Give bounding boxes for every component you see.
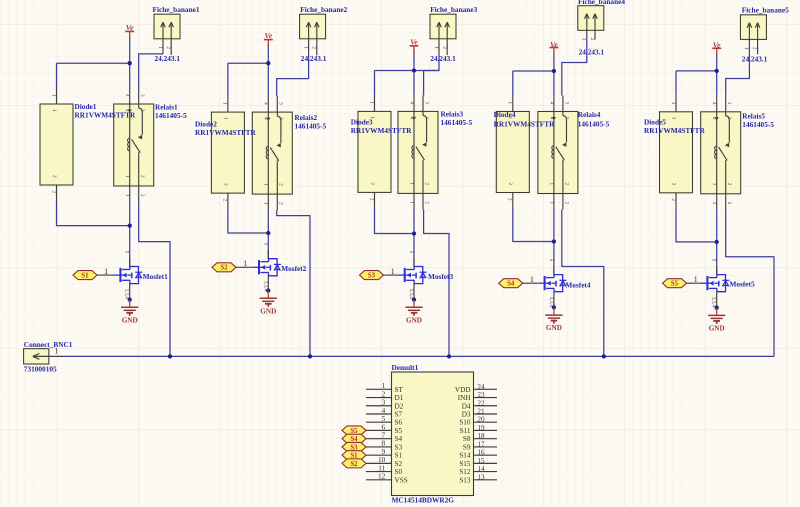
wire Ve3 vertical xyxy=(413,51,415,96)
pin 13 S13 xyxy=(474,479,498,481)
pin 3 D2 xyxy=(366,405,392,407)
svg-text:1: 1 xyxy=(548,202,554,205)
wire Ve5 to Diode5 top xyxy=(676,70,717,72)
svg-text:9: 9 xyxy=(382,448,386,456)
node Ve4 junction xyxy=(552,69,556,73)
svg-text:MC14514BDWR2G: MC14514BDWR2G xyxy=(392,495,455,504)
svg-text:1: 1 xyxy=(50,94,56,97)
pin 21 D3 xyxy=(474,413,498,415)
pin 17 S9 xyxy=(474,446,498,448)
wire relay3 left to mosfet drain xyxy=(413,209,415,266)
IC Demult1 MC14514BDWR2G xyxy=(392,372,474,496)
node bus junction xyxy=(308,354,312,358)
pin Mosfet3 drain xyxy=(413,258,415,266)
svg-text:S3: S3 xyxy=(395,443,403,451)
connector Connect_BNC1 xyxy=(24,349,64,364)
svg-text:Fiche_banane3: Fiche_banane3 xyxy=(430,5,477,14)
wire Diode2 bottom to node xyxy=(228,210,268,233)
pin Mosfet2 gate xyxy=(236,266,253,268)
svg-text:2: 2 xyxy=(670,198,676,201)
svg-text:5: 5 xyxy=(382,415,386,423)
svg-text:1: 1 xyxy=(530,275,534,284)
svg-text:GND: GND xyxy=(406,316,422,324)
svg-text:1,3,4: 1,3,4 xyxy=(408,289,414,300)
pin 5 S6 xyxy=(366,421,392,423)
svg-text:2: 2 xyxy=(726,202,732,205)
svg-text:2: 2 xyxy=(382,390,386,398)
svg-text:15: 15 xyxy=(477,457,485,465)
svg-text:2: 2 xyxy=(563,183,569,186)
wire relay1 left to mosfet drain xyxy=(129,202,131,267)
port S1 demult xyxy=(342,451,366,460)
pin 18 S8 xyxy=(474,438,498,440)
pin 11 S0 xyxy=(366,471,392,473)
svg-text:S9: S9 xyxy=(463,443,471,451)
diode Diode5 xyxy=(660,96,693,210)
svg-text:3: 3 xyxy=(563,102,569,105)
svg-text:1: 1 xyxy=(368,101,374,104)
svg-text:16: 16 xyxy=(477,449,485,457)
svg-text:S14: S14 xyxy=(459,452,471,460)
svg-text:S0: S0 xyxy=(395,468,403,476)
svg-text:3: 3 xyxy=(726,117,732,120)
svg-text:ST: ST xyxy=(395,386,404,394)
relay Relais1 xyxy=(114,88,154,202)
svg-text:S1: S1 xyxy=(81,273,89,280)
wire Fiche_banane2 to relay2 right xyxy=(277,55,309,96)
svg-text:S10: S10 xyxy=(459,419,471,427)
ground GND xyxy=(708,306,725,333)
port S3 demult xyxy=(342,442,366,451)
svg-text:3: 3 xyxy=(423,116,429,119)
transistor Mosfet3 xyxy=(398,251,426,300)
svg-text:Ve: Ve xyxy=(126,23,134,32)
node Ve3 junction xyxy=(412,68,416,72)
svg-text:10: 10 xyxy=(378,456,386,464)
svg-text:S4: S4 xyxy=(507,281,515,288)
svg-text:1461405-5: 1461405-5 xyxy=(742,120,774,129)
svg-text:24.243.1: 24.243.1 xyxy=(579,47,605,56)
svg-text:Fiche_banane5: Fiche_banane5 xyxy=(742,5,789,14)
svg-text:RR1VWM4STFTR: RR1VWM4STFTR xyxy=(494,120,556,129)
svg-text:12: 12 xyxy=(378,473,386,481)
svg-text:1: 1 xyxy=(408,182,414,185)
svg-text:Ve: Ve xyxy=(264,31,272,40)
diode Diode3 xyxy=(358,95,391,208)
svg-text:S5: S5 xyxy=(671,281,679,288)
transistor Mosfet2 xyxy=(253,243,281,292)
svg-text:GND: GND xyxy=(122,316,138,324)
svg-text:Mosfet4: Mosfet4 xyxy=(565,281,590,290)
svg-text:24: 24 xyxy=(477,383,485,391)
pin Mosfet4 drain xyxy=(553,266,555,274)
port S4 demult xyxy=(342,434,366,443)
svg-text:S2: S2 xyxy=(350,461,358,468)
wire Ve2 to Diode2 top xyxy=(228,62,268,64)
power port Ve xyxy=(550,40,559,54)
wire relay4 right to bus xyxy=(562,210,604,357)
svg-text:22: 22 xyxy=(477,399,485,407)
svg-text:3: 3 xyxy=(726,102,732,105)
pin Mosfet5 source xyxy=(716,292,718,308)
svg-text:D3: D3 xyxy=(462,410,471,418)
svg-text:1: 1 xyxy=(391,267,395,276)
svg-text:Diode4: Diode4 xyxy=(494,110,516,119)
svg-text:3: 3 xyxy=(563,117,569,120)
wire relay5 right to bus xyxy=(726,210,774,357)
svg-text:2: 2 xyxy=(507,198,513,201)
wire Fiche_banane1 to relay1 right xyxy=(139,54,163,88)
pin 14 S12 xyxy=(474,471,498,473)
svg-text:5: 5 xyxy=(262,243,268,246)
pin 15 S15 xyxy=(474,462,498,464)
svg-text:4: 4 xyxy=(408,101,414,104)
svg-text:1: 1 xyxy=(433,46,439,49)
diode Diode2 xyxy=(211,96,244,210)
pin 1 ST xyxy=(366,388,392,390)
wire Diode3 bottom to node xyxy=(375,209,415,234)
diode Diode4 xyxy=(496,96,529,210)
wire Ve2 vertical xyxy=(267,45,269,97)
svg-text:Fiche_banane1: Fiche_banane1 xyxy=(153,5,200,14)
svg-text:3: 3 xyxy=(139,94,145,97)
svg-text:S4: S4 xyxy=(395,435,403,443)
svg-text:2: 2 xyxy=(726,183,732,186)
svg-text:S12: S12 xyxy=(459,468,471,476)
svg-text:4: 4 xyxy=(124,94,130,97)
svg-text:1: 1 xyxy=(548,183,554,186)
svg-text:1: 1 xyxy=(222,117,228,120)
svg-text:1461405-5: 1461405-5 xyxy=(578,120,610,129)
wire relay2 left to mosfet drain xyxy=(267,210,269,259)
pin Mosfet2 source xyxy=(267,276,269,291)
svg-text:2: 2 xyxy=(139,175,145,178)
wire Ve3 to Diode3 top xyxy=(375,70,440,72)
node bus junction xyxy=(447,354,451,358)
svg-text:2: 2 xyxy=(368,198,374,201)
svg-text:2: 2 xyxy=(50,191,56,194)
svg-text:1: 1 xyxy=(157,46,163,49)
svg-text:1: 1 xyxy=(124,194,130,197)
svg-text:1461405-5: 1461405-5 xyxy=(295,121,327,130)
port S2 demult xyxy=(342,459,366,468)
relay Relais2 xyxy=(252,96,292,210)
svg-text:2: 2 xyxy=(751,47,757,50)
power port Ve xyxy=(410,37,419,52)
relay Relais4 xyxy=(538,96,578,210)
svg-text:19: 19 xyxy=(477,424,485,432)
svg-text:1: 1 xyxy=(711,202,717,205)
port S1 xyxy=(73,271,97,280)
svg-text:2: 2 xyxy=(51,175,57,178)
pin Mosfet1 drain xyxy=(129,258,131,266)
svg-text:3: 3 xyxy=(423,101,429,104)
pin Mosfet2 drain xyxy=(267,250,269,258)
svg-text:5: 5 xyxy=(548,259,554,262)
node diode5 bottom junction xyxy=(715,240,719,244)
node diode3 bottom junction xyxy=(412,231,416,235)
wire Fiche_banane3 to relay3 right xyxy=(424,55,439,95)
svg-text:17: 17 xyxy=(477,440,485,448)
svg-text:24.243.1: 24.243.1 xyxy=(430,54,456,63)
ground GND xyxy=(405,297,422,324)
svg-text:3: 3 xyxy=(382,399,386,407)
svg-text:1: 1 xyxy=(104,267,108,276)
svg-text:S13: S13 xyxy=(459,476,471,484)
pin 22 D4 xyxy=(474,405,498,407)
wire Ve1 vertical xyxy=(129,36,131,88)
wire Fiche_banane5 to relay5 right xyxy=(726,47,750,96)
svg-text:VDD: VDD xyxy=(455,386,471,394)
svg-text:4: 4 xyxy=(382,407,386,415)
svg-text:21: 21 xyxy=(477,407,485,415)
port S3 xyxy=(360,271,384,280)
svg-text:RR1VWM4STFTR: RR1VWM4STFTR xyxy=(75,110,137,119)
wire relay4 left to mosfet drain xyxy=(553,210,555,275)
svg-text:D2: D2 xyxy=(395,402,404,410)
port S5 demult xyxy=(342,426,366,435)
svg-text:2: 2 xyxy=(369,182,375,185)
svg-text:2: 2 xyxy=(423,201,429,204)
svg-text:24.243.1: 24.243.1 xyxy=(301,54,327,63)
svg-text:20: 20 xyxy=(477,416,485,424)
svg-text:1: 1 xyxy=(581,38,587,41)
node diode1 bottom junction xyxy=(128,223,132,227)
svg-text:GND: GND xyxy=(546,324,562,332)
power port Ve xyxy=(264,31,273,46)
pin 23 INH xyxy=(474,397,498,399)
svg-text:RR1VWM4STFTR: RR1VWM4STFTR xyxy=(195,128,257,137)
node diode4 bottom junction xyxy=(552,239,556,243)
pin 7 S4 xyxy=(366,438,392,440)
svg-text:2: 2 xyxy=(139,194,145,197)
svg-text:S7: S7 xyxy=(395,410,403,418)
svg-text:1: 1 xyxy=(243,259,247,268)
pin 4 S7 xyxy=(366,413,392,415)
pin 16 S14 xyxy=(474,454,498,456)
svg-text:13: 13 xyxy=(477,473,485,481)
svg-text:23: 23 xyxy=(477,391,485,399)
pin Mosfet1 gate xyxy=(97,274,114,276)
svg-text:4: 4 xyxy=(711,117,717,120)
pin 20 S10 xyxy=(474,421,498,423)
svg-text:2: 2 xyxy=(311,46,317,49)
svg-text:2: 2 xyxy=(423,182,429,185)
svg-text:Fiche_banane4: Fiche_banane4 xyxy=(578,0,625,6)
svg-text:6: 6 xyxy=(382,423,386,431)
svg-text:RR1VWM4STFTR: RR1VWM4STFTR xyxy=(351,126,413,135)
svg-text:3: 3 xyxy=(139,109,145,112)
svg-text:Demult1: Demult1 xyxy=(392,363,419,372)
svg-text:4: 4 xyxy=(548,102,554,105)
wire Diode4 top drop xyxy=(512,71,514,96)
svg-text:2: 2 xyxy=(589,38,595,41)
svg-text:2: 2 xyxy=(670,183,676,186)
power port Ve xyxy=(125,23,134,38)
pin Mosfet1 source xyxy=(129,284,131,300)
wire Diode2 top drop xyxy=(227,63,229,96)
svg-text:1: 1 xyxy=(670,102,676,105)
svg-text:1: 1 xyxy=(507,102,513,105)
power port Ve xyxy=(712,41,721,55)
svg-text:S3: S3 xyxy=(368,273,376,280)
node Ve1 junction xyxy=(128,61,132,65)
pin 8 S3 xyxy=(366,446,392,448)
wire Diode5 top drop xyxy=(675,71,677,96)
svg-text:4: 4 xyxy=(711,102,717,105)
svg-text:24.243.1: 24.243.1 xyxy=(155,54,181,63)
svg-text:2: 2 xyxy=(563,202,569,205)
wire Diode3 top drop xyxy=(374,71,376,96)
svg-text:Relais4: Relais4 xyxy=(578,110,601,119)
svg-text:Mosfet3: Mosfet3 xyxy=(428,272,453,281)
svg-text:4: 4 xyxy=(408,116,414,119)
wire bottom bus xyxy=(63,355,774,357)
wire relay2 right to bus xyxy=(277,210,310,356)
svg-text:1: 1 xyxy=(670,117,676,120)
port S5 xyxy=(663,279,687,288)
svg-text:Mosfet1: Mosfet1 xyxy=(143,272,168,281)
connector Fiche_banane1 xyxy=(154,14,180,55)
svg-text:S2: S2 xyxy=(220,265,228,272)
connector Fiche_banane2 xyxy=(300,14,326,55)
pin 24 VDD xyxy=(474,388,498,390)
pin Mosfet5 gate xyxy=(687,282,702,284)
svg-text:Fiche_banane2: Fiche_banane2 xyxy=(300,5,347,14)
svg-text:731000105: 731000105 xyxy=(24,365,57,374)
svg-text:2: 2 xyxy=(222,183,228,186)
relay Relais3 xyxy=(398,95,438,209)
relay Relais5 xyxy=(701,96,741,210)
diode Diode1 xyxy=(40,88,73,202)
pin 12 VSS xyxy=(366,479,392,481)
wire Ve5 vertical xyxy=(716,53,718,96)
pin Mosfet4 gate xyxy=(523,282,539,284)
svg-text:VSS: VSS xyxy=(395,476,408,484)
svg-text:14: 14 xyxy=(477,465,485,473)
pin Mosfet3 gate xyxy=(384,274,399,276)
svg-text:1461405-5: 1461405-5 xyxy=(441,118,473,127)
ground GND xyxy=(121,297,138,324)
svg-text:1: 1 xyxy=(124,175,130,178)
svg-text:1,3,4: 1,3,4 xyxy=(124,289,130,300)
transistor Mosfet1 xyxy=(114,251,142,300)
wire Diode1 bottom to node xyxy=(57,202,130,226)
port S2 xyxy=(212,263,236,272)
svg-text:8: 8 xyxy=(382,440,386,448)
wire Ve4 to Diode4 top xyxy=(513,70,554,72)
svg-text:24.243.1: 24.243.1 xyxy=(742,55,768,64)
pin 2 D1 xyxy=(366,397,392,399)
svg-text:S15: S15 xyxy=(459,460,471,468)
node diode2 bottom junction xyxy=(266,231,270,235)
node bus junction xyxy=(168,354,172,358)
svg-text:Mosfet5: Mosfet5 xyxy=(730,280,755,289)
svg-text:D1: D1 xyxy=(395,394,404,402)
wire Fiche_banane4 to relay4 right xyxy=(562,40,587,96)
svg-text:18: 18 xyxy=(477,432,485,440)
svg-text:INH: INH xyxy=(458,394,471,402)
node Ve2 junction xyxy=(266,61,270,65)
pin Mosfet3 source xyxy=(413,284,415,300)
wire Diode4 bottom to node xyxy=(513,209,554,242)
svg-text:GND: GND xyxy=(709,325,725,333)
pin 19 S11 xyxy=(474,429,498,431)
svg-text:11: 11 xyxy=(378,464,385,472)
svg-text:1: 1 xyxy=(302,46,308,49)
svg-text:D4: D4 xyxy=(462,402,471,410)
node bus junction xyxy=(602,354,606,358)
wire Ve1 to Diode1 top xyxy=(57,62,130,64)
svg-text:1,3,4: 1,3,4 xyxy=(711,297,717,308)
svg-text:S8: S8 xyxy=(463,435,471,443)
svg-text:1461405-5: 1461405-5 xyxy=(155,111,187,120)
pin Mosfet5 drain xyxy=(716,266,718,274)
port S4 xyxy=(499,279,523,288)
pin 6 S5 xyxy=(366,429,392,431)
svg-text:Connect_BNC1: Connect_BNC1 xyxy=(24,340,73,349)
pin Mosfet4 source xyxy=(553,292,555,308)
transistor Mosfet4 xyxy=(538,259,566,308)
svg-text:1: 1 xyxy=(694,275,698,284)
wire Diode1 top drop xyxy=(56,63,58,88)
wire Diode5 bottom to node xyxy=(676,209,717,242)
svg-text:S1: S1 xyxy=(395,452,403,460)
connector Fiche_banane5 xyxy=(740,15,766,54)
svg-text:1: 1 xyxy=(408,201,414,204)
svg-text:S11: S11 xyxy=(460,427,471,435)
ground GND xyxy=(545,305,562,332)
transistor Mosfet5 xyxy=(701,259,729,308)
svg-text:S2: S2 xyxy=(395,460,403,468)
svg-text:GND: GND xyxy=(260,307,276,315)
wire relay3 right to bus xyxy=(424,209,449,356)
svg-text:1: 1 xyxy=(711,183,717,186)
connector Fiche_banane4 xyxy=(578,6,604,41)
wire Ve4 vertical xyxy=(553,52,555,95)
pin 9 S1 xyxy=(366,454,392,456)
svg-text:1: 1 xyxy=(382,382,386,390)
wire relay5 left to mosfet drain xyxy=(716,210,718,275)
svg-text:1: 1 xyxy=(51,109,57,112)
svg-text:7: 7 xyxy=(382,431,386,439)
wire relay1 right to bus xyxy=(139,202,170,356)
svg-text:RR1VWM4STFTR: RR1VWM4STFTR xyxy=(644,126,706,135)
node Ve5 junction xyxy=(715,69,719,73)
connector Fiche_banane3 xyxy=(430,14,456,55)
svg-text:Mosfet2: Mosfet2 xyxy=(281,264,306,273)
svg-text:Ve: Ve xyxy=(410,37,418,46)
svg-text:S5: S5 xyxy=(395,427,403,435)
svg-text:S6: S6 xyxy=(395,419,403,427)
ground GND xyxy=(260,288,277,315)
pin 10 S2 xyxy=(366,462,392,464)
